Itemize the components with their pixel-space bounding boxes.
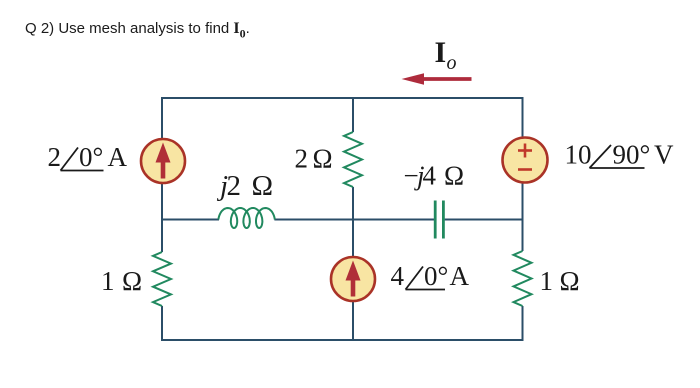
svg-text:Q 2) Use mesh analysis to find: Q 2) Use mesh analysis to find I0. [25,20,250,41]
wire left vertical lower [161,306,163,341]
svg-text:2: 2 [227,170,242,202]
svg-text:V: V [654,140,674,170]
svg-text:10: 10 [565,140,592,170]
svg-text:2: 2 [48,142,62,172]
svg-text:0°: 0° [424,261,448,291]
wire middle vertical lower [352,187,354,341]
resistor 1 ohm right [514,251,532,306]
resistor 2 ohm middle [344,132,362,187]
capacitor -j4 ohm plates [434,201,437,239]
wire middle horizontal right segment [445,219,523,221]
svg-text:A: A [450,261,470,291]
minus sign [518,168,532,171]
plus sign [518,149,532,152]
svg-text:Ω: Ω [560,266,580,296]
wire middle vertical upper [352,97,354,132]
svg-text:Ω: Ω [313,144,333,174]
wire right vertical lower [522,306,524,341]
svg-text:I: I [435,36,447,69]
wire bottom horizontal [162,339,524,341]
svg-text:90°: 90° [613,140,651,170]
svg-text:2: 2 [295,144,309,174]
wire middle horizontal left segment [162,219,219,221]
Io arrow [421,77,472,81]
wire left vertical upper [161,97,163,252]
svg-text:Ω: Ω [252,170,274,202]
wire right vertical upper [522,97,524,251]
resistor 1 ohm left [153,252,171,306]
current source 4/0A circle [331,257,375,301]
current source 2/0A circle [141,139,185,183]
svg-text:4: 4 [391,261,405,291]
svg-text:4: 4 [423,161,437,191]
svg-text:Ω: Ω [122,266,142,296]
svg-text:0°: 0° [79,142,103,172]
inductor j2 ohm coil [218,208,274,228]
voltage source 10/90V circle [503,138,548,183]
svg-text:1: 1 [540,266,554,296]
svg-text:Ω: Ω [444,161,464,191]
wire top horizontal [162,97,524,99]
wire middle horizontal center segment [274,219,434,221]
svg-text:A: A [108,142,128,172]
svg-text:1: 1 [101,266,115,296]
svg-text:o: o [447,52,457,74]
